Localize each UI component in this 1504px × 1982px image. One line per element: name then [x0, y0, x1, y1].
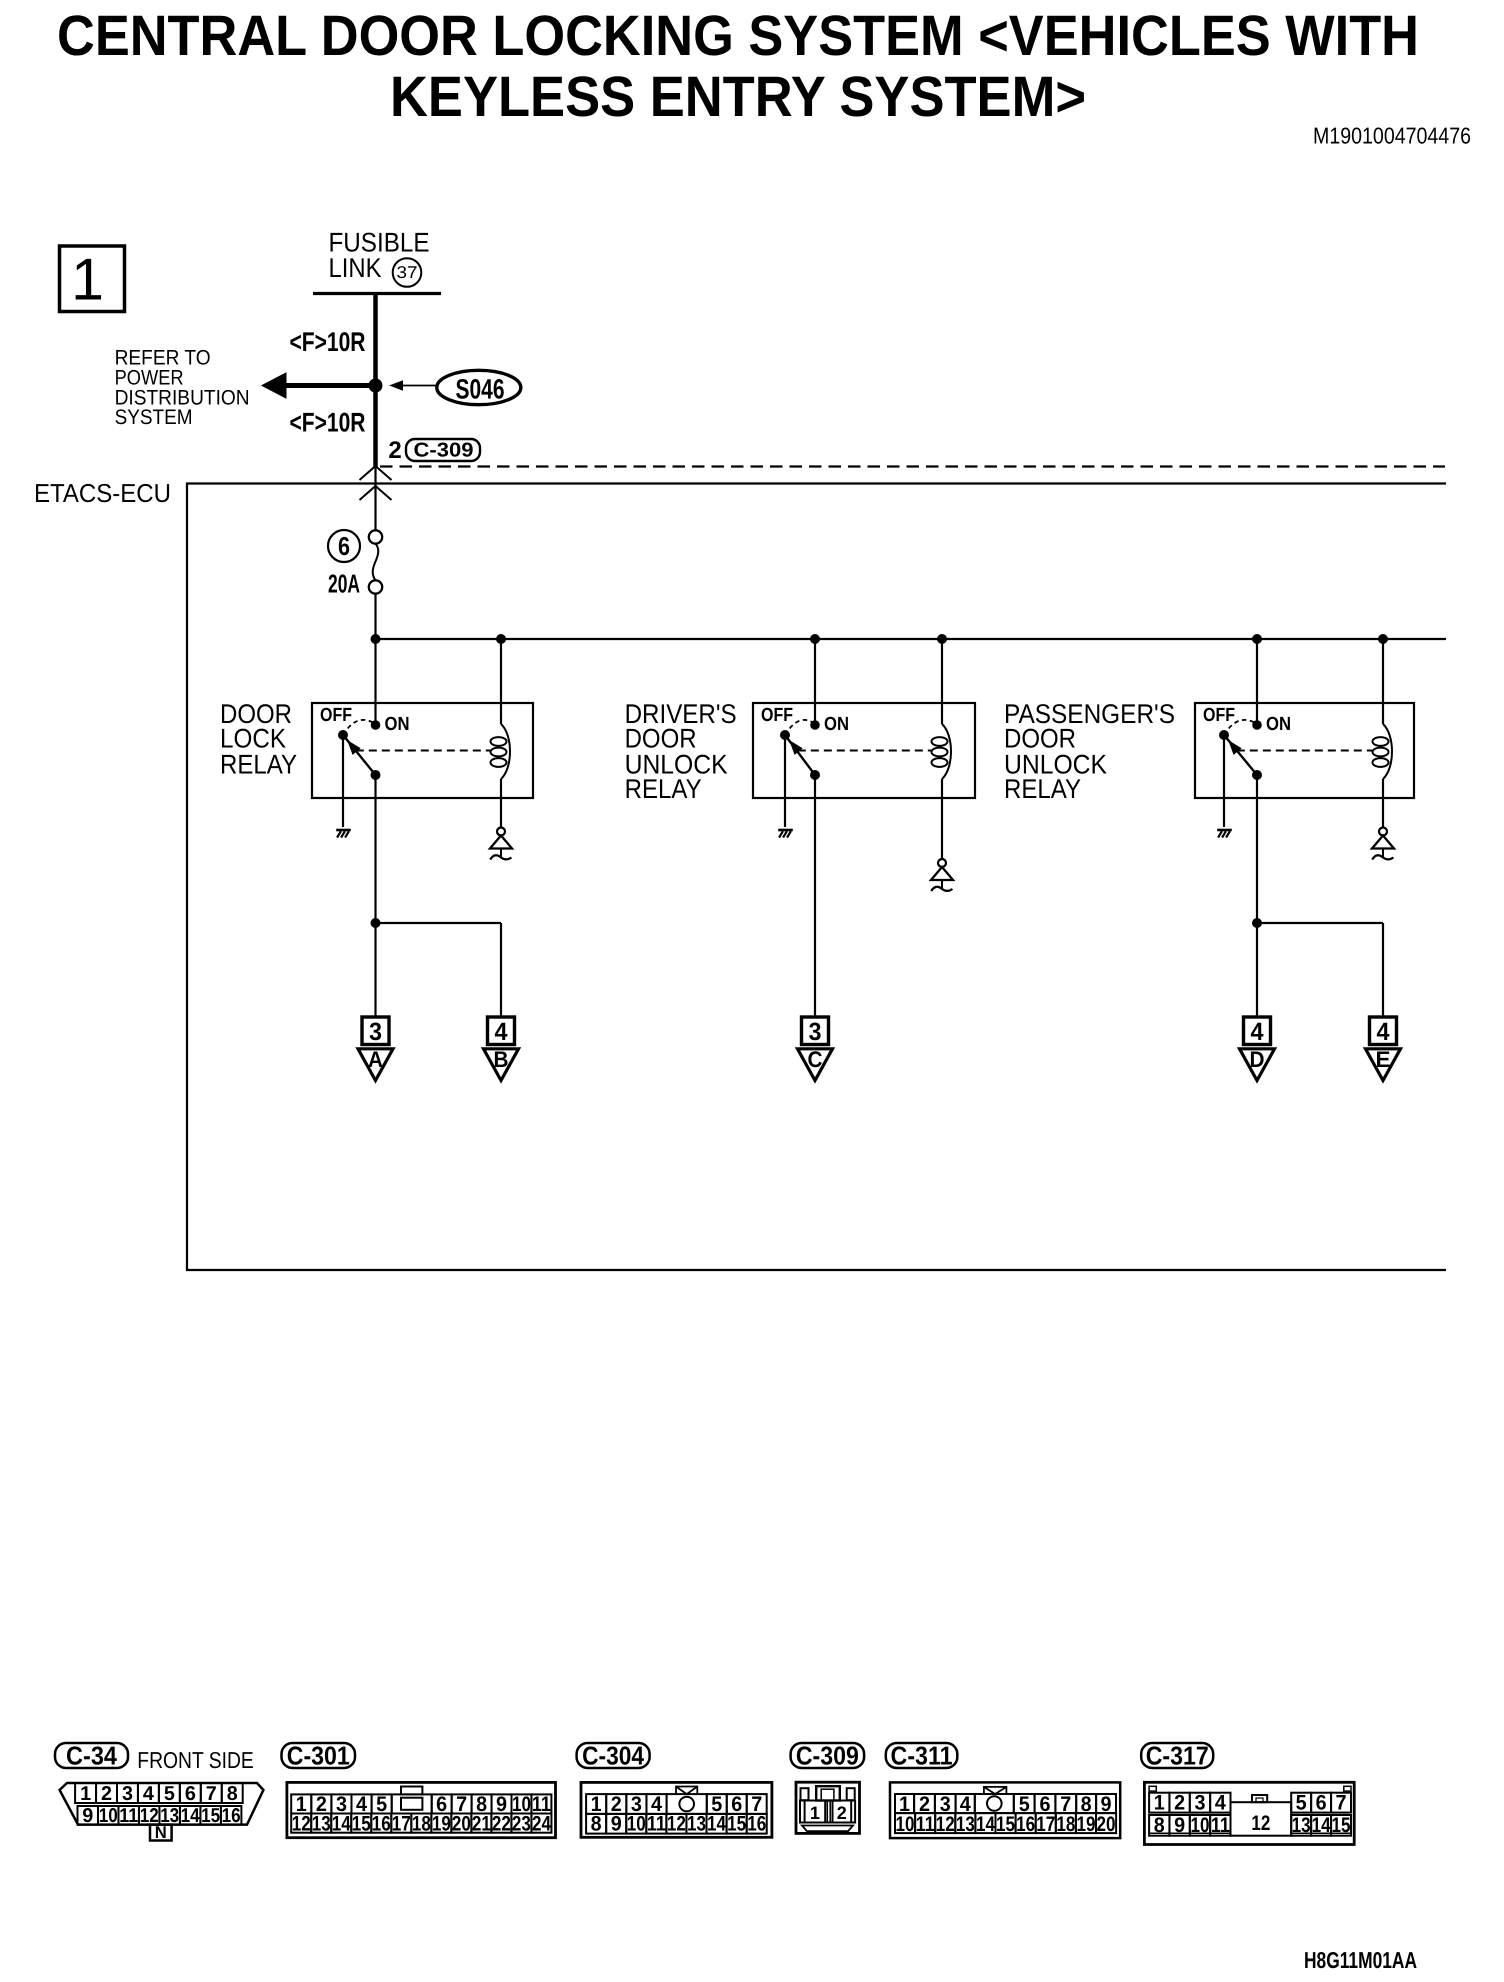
svg-text:4: 4 — [1377, 1018, 1390, 1046]
wire entry chevrons — [360, 466, 392, 531]
wire: bold arrow to power distribution — [262, 373, 376, 398]
connector C-304 pinout — [581, 1782, 772, 1837]
svg-text:16: 16 — [1016, 1813, 1035, 1836]
connector C-301 label — [282, 1741, 356, 1771]
body ground (relay: door lock relay coil) — [490, 828, 512, 860]
svg-text:16: 16 — [747, 1813, 766, 1836]
svg-text:LINK: LINK — [329, 253, 382, 283]
relay coil (relay: passenger's door unlock relay) — [1373, 639, 1393, 828]
svg-text:D: D — [1250, 1047, 1265, 1072]
body ground (relay: passenger's door unlock relay coil) — [1372, 828, 1394, 860]
svg-text:20: 20 — [1097, 1813, 1116, 1836]
svg-text:24: 24 — [532, 1813, 551, 1836]
svg-text:11: 11 — [1211, 1814, 1230, 1837]
svg-text:15: 15 — [727, 1813, 746, 1836]
svg-text:SYSTEM: SYSTEM — [115, 406, 193, 429]
svg-text:C-311: C-311 — [891, 1741, 953, 1771]
node: bus junction x=815 — [810, 634, 820, 644]
svg-text:16: 16 — [222, 1805, 241, 1827]
chassis ground (relay: driver's door unlock relay switch) — [778, 830, 793, 838]
wire: passenger's relay output — [1256, 775, 1258, 1017]
svg-text:13: 13 — [1292, 1814, 1311, 1837]
connector C-317 label — [1141, 1741, 1213, 1771]
svg-text:16: 16 — [372, 1813, 391, 1836]
svg-text:<F>10R: <F>10R — [290, 327, 366, 357]
svg-text:OFF: OFF — [761, 705, 793, 726]
svg-text:21: 21 — [472, 1813, 491, 1836]
svg-text:M1901004704476: M1901004704476 — [1313, 123, 1471, 149]
svg-text:12: 12 — [292, 1813, 311, 1836]
wire: driver's relay output — [814, 775, 816, 1017]
svg-text:5: 5 — [164, 1783, 175, 1805]
svg-text:17: 17 — [392, 1813, 411, 1836]
svg-text:15: 15 — [996, 1813, 1015, 1836]
node: bus junction x=942 — [937, 634, 947, 644]
connector C-309 pin 2 — [388, 437, 480, 464]
svg-text:C-317: C-317 — [1146, 1741, 1209, 1771]
svg-text:ON: ON — [824, 714, 849, 735]
sheet number 1 — [60, 246, 125, 313]
fuse 6 20A — [328, 530, 382, 639]
svg-text:13: 13 — [687, 1813, 706, 1836]
svg-text:C-34: C-34 — [66, 1741, 117, 1771]
connector C-311 pinout — [890, 1782, 1120, 1838]
relay coil (relay: driver's door unlock relay) — [932, 639, 952, 860]
connector C-301 pinout — [287, 1782, 556, 1837]
svg-text:37: 37 — [397, 263, 418, 282]
svg-text:18: 18 — [412, 1813, 431, 1836]
svg-text:23: 23 — [512, 1813, 531, 1836]
svg-text:3: 3 — [122, 1783, 133, 1805]
svg-text:10: 10 — [627, 1813, 646, 1836]
terminal 4 / continuation B — [484, 1017, 519, 1081]
relay: passenger's door unlock relay — [1004, 639, 1414, 827]
svg-text:N: N — [155, 1823, 167, 1842]
svg-text:13: 13 — [312, 1813, 331, 1836]
svg-text:ON: ON — [385, 714, 410, 735]
svg-text:OFF: OFF — [320, 705, 352, 726]
svg-text:22: 22 — [492, 1813, 511, 1836]
svg-text:20A: 20A — [328, 569, 360, 599]
relay: driver's door unlock relay — [625, 639, 975, 827]
svg-text:1: 1 — [810, 1803, 820, 1823]
svg-text:18: 18 — [1056, 1813, 1075, 1836]
svg-text:1: 1 — [80, 1783, 91, 1805]
fusible link 37 label — [329, 228, 430, 287]
svg-text:FRONT SIDE: FRONT SIDE — [137, 1747, 254, 1773]
node: bus junction x=1257 — [1252, 634, 1262, 644]
svg-text:14: 14 — [181, 1805, 201, 1827]
svg-text:8: 8 — [1154, 1814, 1165, 1837]
svg-text:13: 13 — [956, 1813, 975, 1836]
svg-text:19: 19 — [1076, 1813, 1095, 1836]
svg-text:10: 10 — [896, 1813, 915, 1836]
body ground (relay: driver's door unlock relay coil) — [931, 859, 953, 891]
svg-text:12: 12 — [667, 1813, 686, 1836]
terminal 4 / continuation D — [1240, 1017, 1275, 1081]
svg-text:1: 1 — [71, 247, 104, 313]
wire: branch to E — [1257, 923, 1383, 1017]
svg-text:15: 15 — [201, 1805, 220, 1827]
svg-text:20: 20 — [452, 1813, 471, 1836]
terminal 3 / continuation C — [798, 1017, 833, 1081]
svg-text:9: 9 — [611, 1813, 622, 1836]
svg-text:7: 7 — [1336, 1792, 1347, 1815]
svg-text:14: 14 — [1312, 1814, 1331, 1837]
wire: door lock relay output — [374, 775, 376, 1017]
svg-text:6: 6 — [338, 531, 350, 561]
svg-text:10: 10 — [1190, 1814, 1209, 1837]
svg-text:17: 17 — [1036, 1813, 1055, 1836]
svg-text:4: 4 — [1215, 1792, 1226, 1815]
svg-text:14: 14 — [332, 1813, 351, 1836]
svg-text:6: 6 — [1316, 1792, 1327, 1815]
node: junction A/B branch — [371, 918, 381, 928]
node: junction S046 — [369, 379, 383, 393]
svg-text:2: 2 — [837, 1803, 847, 1823]
relay: door lock relay — [220, 639, 533, 827]
svg-text:7: 7 — [206, 1783, 217, 1805]
svg-text:CENTRAL DOOR LOCKING SYSTEM <V: CENTRAL DOOR LOCKING SYSTEM <VEHICLES WI… — [57, 4, 1419, 68]
svg-text:RELAY: RELAY — [1004, 774, 1081, 804]
connector C-311 label — [886, 1741, 958, 1771]
svg-text:<F>10R: <F>10R — [290, 408, 366, 438]
svg-text:RELAY: RELAY — [625, 774, 702, 804]
svg-text:9: 9 — [82, 1805, 93, 1827]
svg-text:5: 5 — [1296, 1792, 1307, 1815]
svg-text:B: B — [494, 1047, 509, 1072]
svg-text:10: 10 — [99, 1805, 118, 1827]
note: refer to power distribution system — [115, 347, 250, 430]
ETACS-ECU box — [187, 484, 1446, 1271]
svg-text:4: 4 — [495, 1018, 508, 1046]
splice S046 — [391, 370, 521, 404]
title — [57, 4, 1419, 129]
svg-text:OFF: OFF — [1203, 705, 1235, 726]
connector C-34 pinout — [60, 1783, 264, 1842]
svg-text:8: 8 — [227, 1783, 238, 1805]
svg-text:15: 15 — [1332, 1814, 1351, 1837]
terminal 3 / continuation A — [358, 1017, 393, 1081]
svg-text:2: 2 — [101, 1783, 112, 1805]
svg-text:H8G11M01AA: H8G11M01AA — [1304, 1947, 1417, 1973]
svg-text:ON: ON — [1266, 714, 1291, 735]
svg-text:6: 6 — [185, 1783, 196, 1805]
svg-text:12: 12 — [1251, 1812, 1270, 1835]
svg-text:4: 4 — [1251, 1018, 1264, 1046]
svg-text:3: 3 — [369, 1018, 382, 1046]
connector C-34 label — [55, 1741, 128, 1771]
svg-text:ETACS-ECU: ETACS-ECU — [34, 478, 171, 508]
wire: battery feed (thick) — [373, 295, 378, 467]
svg-text:11: 11 — [916, 1813, 935, 1836]
node: bus junction x=375.5 — [371, 634, 381, 644]
svg-text:11: 11 — [119, 1805, 138, 1827]
svg-text:C-309: C-309 — [796, 1741, 859, 1771]
node: junction D/E branch — [1252, 918, 1262, 928]
svg-text:1: 1 — [1154, 1792, 1165, 1815]
wire: branch to B — [376, 923, 502, 1017]
svg-text:9: 9 — [1174, 1814, 1185, 1837]
svg-text:A: A — [368, 1047, 383, 1072]
svg-text:RELAY: RELAY — [220, 749, 297, 779]
node: bus junction x=501 — [496, 634, 506, 644]
svg-text:11: 11 — [647, 1813, 666, 1836]
connector C-317 pinout — [1144, 1782, 1354, 1844]
svg-text:15: 15 — [352, 1813, 371, 1836]
svg-text:E: E — [1376, 1047, 1391, 1072]
wire: main bus — [376, 638, 1447, 640]
connector C-309 label — [791, 1741, 865, 1771]
svg-text:12: 12 — [936, 1813, 955, 1836]
chassis ground (relay: passenger's door unlock relay switch) — [1217, 830, 1232, 838]
connector C-309 pinout — [796, 1782, 860, 1833]
connector C-304 label — [577, 1741, 650, 1771]
svg-text:2: 2 — [388, 437, 401, 464]
chassis ground (relay: door lock relay switch) — [336, 830, 351, 838]
fusible link bar — [313, 292, 441, 295]
svg-text:19: 19 — [432, 1813, 451, 1836]
svg-text:S046: S046 — [456, 374, 505, 405]
terminal 4 / continuation E — [1366, 1017, 1401, 1081]
svg-text:14: 14 — [976, 1813, 995, 1836]
svg-text:4: 4 — [143, 1783, 155, 1805]
svg-text:KEYLESS ENTRY SYSTEM>: KEYLESS ENTRY SYSTEM> — [390, 65, 1086, 129]
svg-text:3: 3 — [1194, 1792, 1205, 1815]
svg-text:C-309: C-309 — [414, 440, 474, 462]
svg-text:2: 2 — [1174, 1792, 1185, 1815]
svg-text:C: C — [808, 1047, 823, 1072]
relay coil (relay: door lock relay) — [491, 639, 511, 828]
svg-text:14: 14 — [707, 1813, 726, 1836]
svg-text:8: 8 — [591, 1813, 602, 1836]
svg-text:3: 3 — [809, 1018, 822, 1046]
svg-text:C-304: C-304 — [582, 1741, 644, 1771]
node: bus junction x=1383 — [1378, 634, 1388, 644]
dashed boundary line — [380, 465, 1445, 467]
svg-text:C-301: C-301 — [287, 1741, 350, 1771]
